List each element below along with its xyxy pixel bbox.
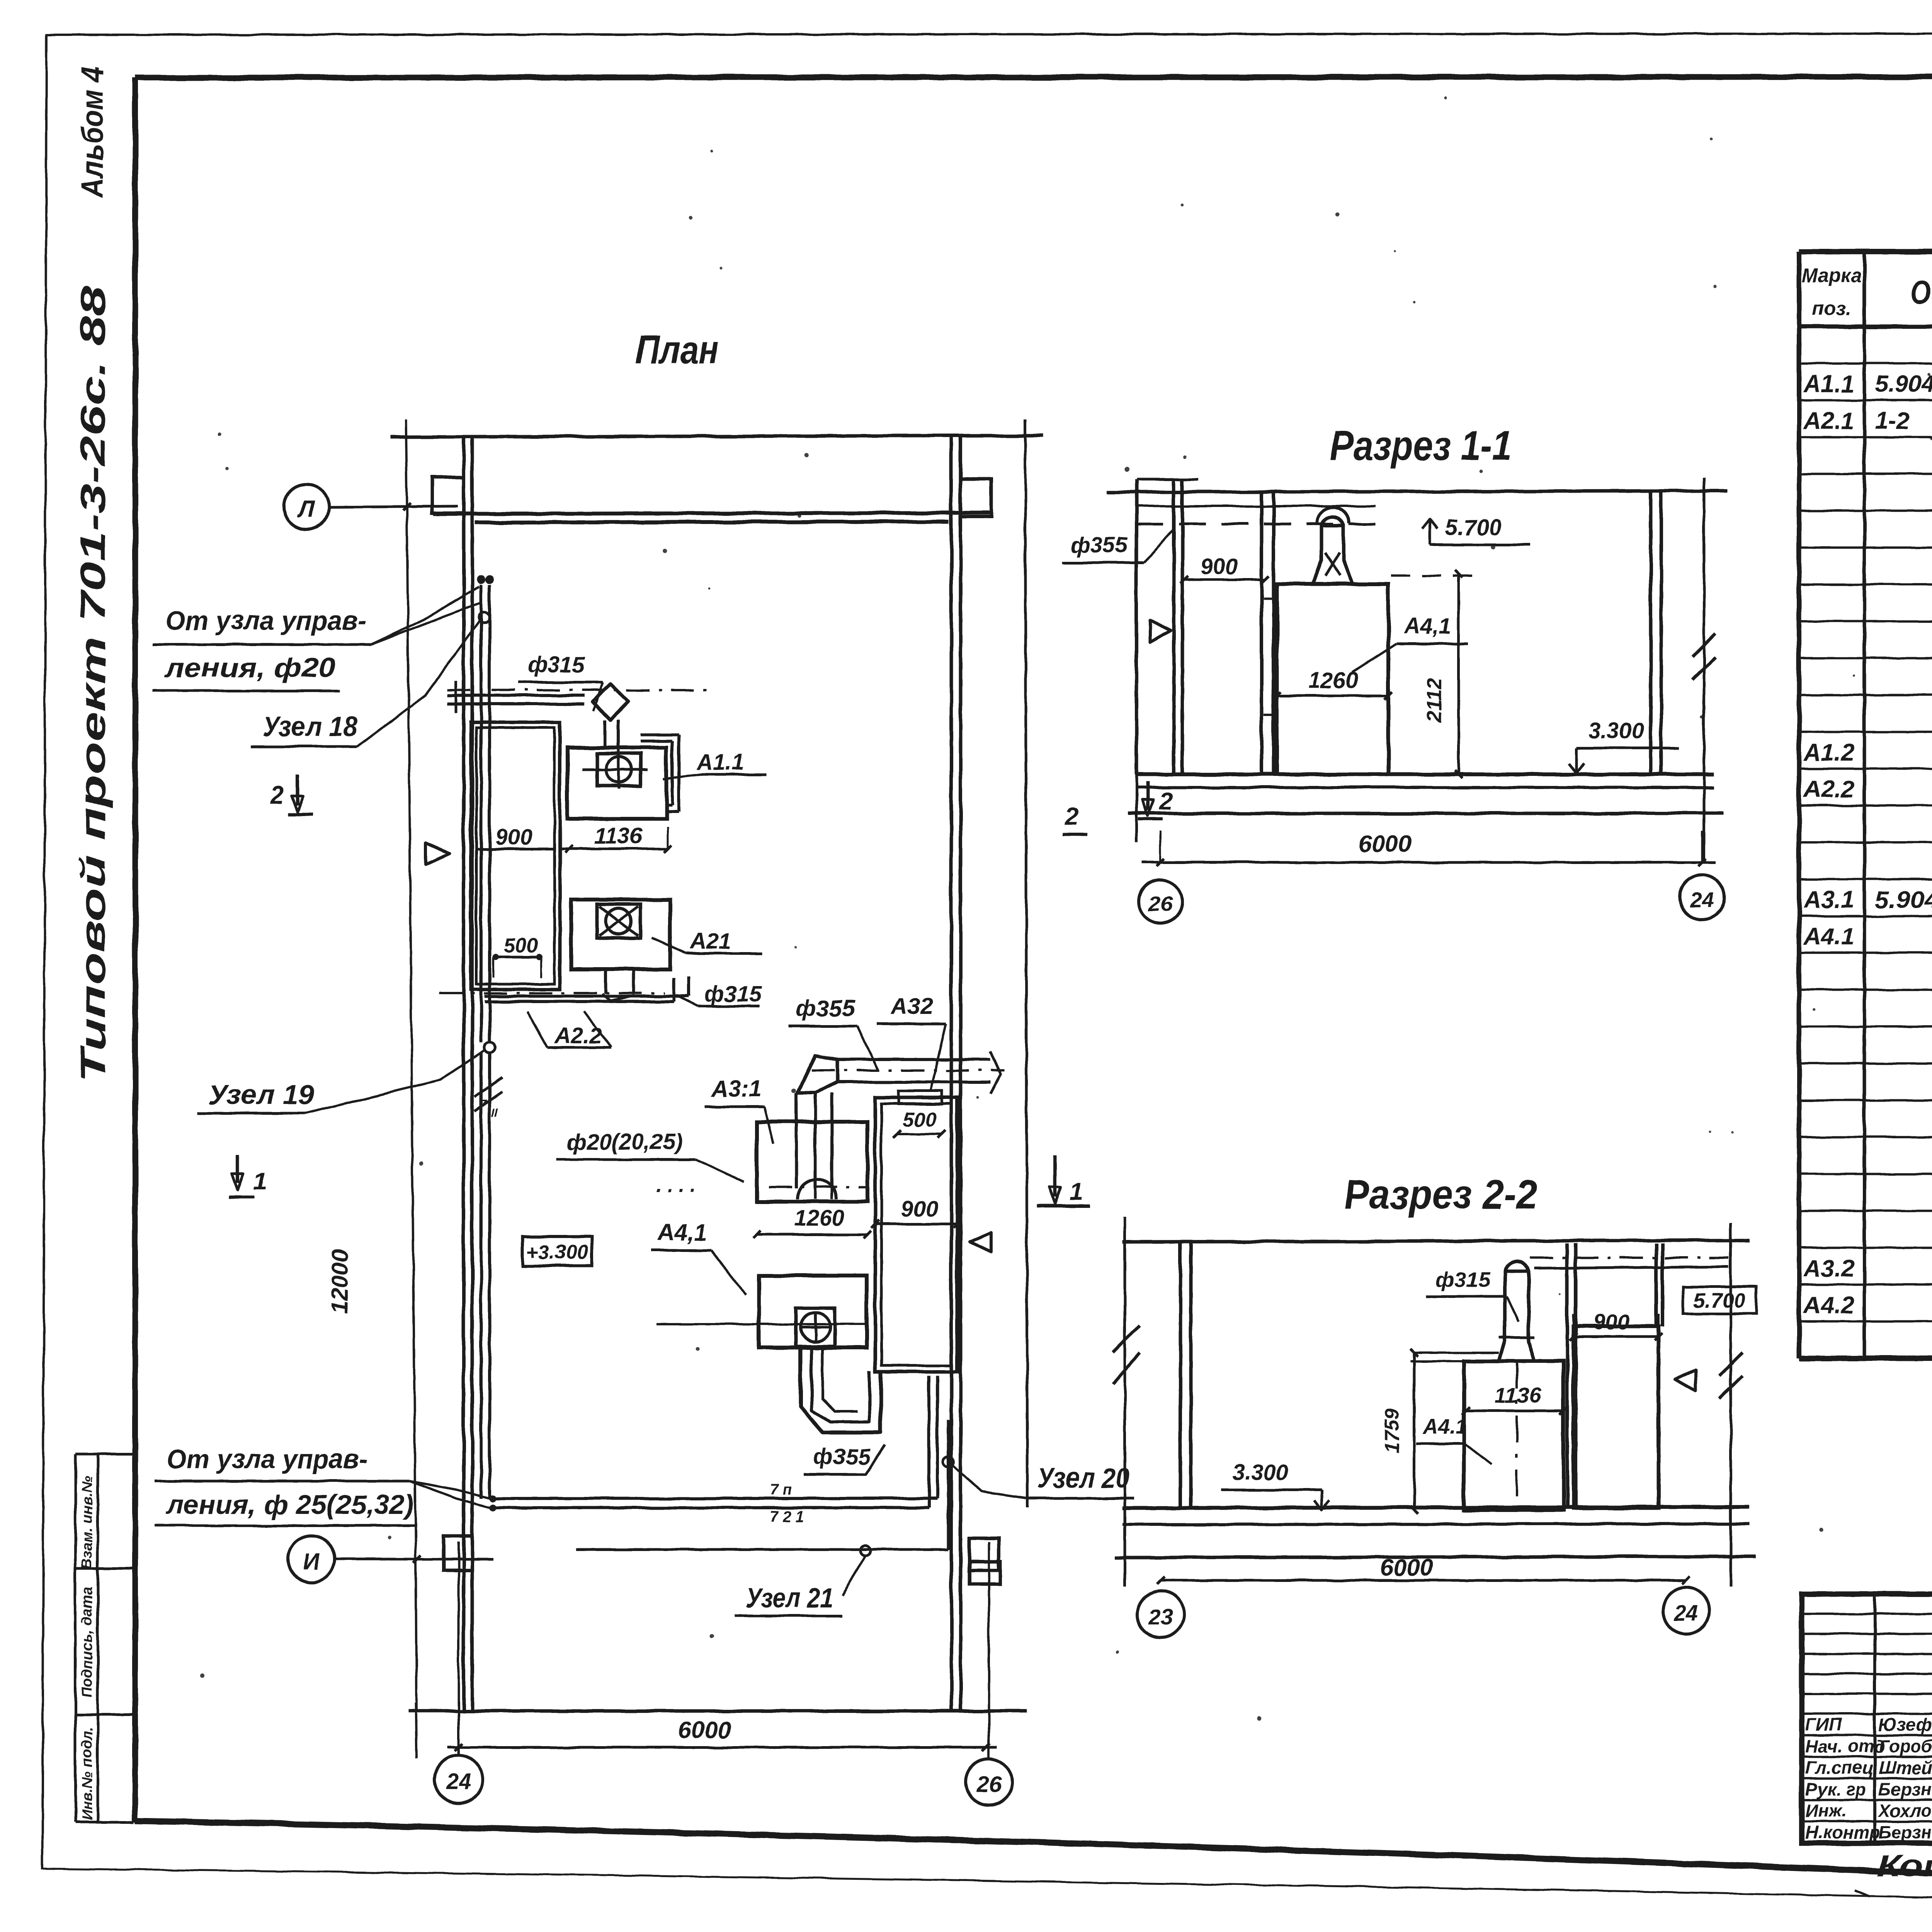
svg-text:1260: 1260 [794, 1206, 844, 1231]
svg-text:7 п: 7 п [770, 1481, 792, 1498]
svg-text:От узла управ-: От узла управ- [167, 1444, 367, 1474]
svg-text:Узел 18: Узел 18 [262, 711, 357, 742]
svg-text:II: II [492, 1107, 498, 1119]
svg-text:ф315: ф315 [704, 981, 762, 1007]
svg-text:24: 24 [1690, 888, 1714, 912]
svg-text:ф315: ф315 [1435, 1267, 1491, 1291]
svg-text:А2.1: А2.1 [1803, 408, 1854, 434]
svg-text:И: И [303, 1549, 320, 1575]
svg-text:ления, ф 25(25,32): ления, ф 25(25,32) [165, 1490, 414, 1520]
svg-text:ления, ф20: ления, ф20 [164, 653, 335, 683]
svg-text:От узла управ-: От узла управ- [165, 605, 366, 636]
svg-text:1136: 1136 [594, 823, 643, 849]
svg-text:1: 1 [253, 1167, 267, 1195]
svg-text:План: План [636, 327, 719, 372]
svg-text:2: 2 [1159, 787, 1173, 815]
svg-text:. . . .: . . . . [656, 1173, 696, 1197]
svg-text:ф355: ф355 [1070, 532, 1128, 558]
svg-text:А3.2: А3.2 [1803, 1255, 1854, 1282]
svg-text:+3.300: +3.300 [526, 1241, 588, 1264]
svg-text:1759: 1759 [1381, 1408, 1403, 1453]
svg-text:Инв.№ подл.: Инв.№ подл. [79, 1727, 95, 1820]
svg-text:Подпись, дата: Подпись, дата [79, 1587, 95, 1697]
svg-text:Гл.спец: Гл.спец [1805, 1758, 1874, 1778]
svg-text:А1.1: А1.1 [696, 750, 744, 775]
svg-text:900: 900 [901, 1196, 939, 1221]
svg-text:12000: 12000 [327, 1249, 353, 1314]
svg-text:5.904-34 6.0.1-1и 1-2: 5.904-34 6.0.1-1и 1-2 [1875, 887, 1932, 913]
svg-text:26: 26 [1148, 891, 1173, 916]
svg-text:Горобец: Горобец [1879, 1736, 1932, 1756]
svg-text:6000: 6000 [1380, 1554, 1433, 1581]
svg-text:А2.2: А2.2 [1803, 776, 1854, 803]
svg-text:Штейнберг: Штейнберг [1879, 1758, 1932, 1778]
svg-text:5.904-34 6.0.1-1и: 5.904-34 6.0.1-1и [1875, 371, 1932, 398]
svg-text:3.300: 3.300 [1232, 1460, 1288, 1485]
svg-text:ф355: ф355 [796, 995, 855, 1021]
svg-text:А4,1: А4,1 [1403, 614, 1451, 639]
svg-text:ф315: ф315 [527, 652, 585, 677]
svg-text:900: 900 [1593, 1310, 1629, 1334]
svg-text:А3.1: А3.1 [1803, 887, 1854, 913]
svg-text:А32: А32 [890, 993, 933, 1019]
svg-text:Копировала: Копировала [1877, 1849, 1932, 1883]
svg-text:900: 900 [495, 825, 533, 850]
svg-text:А1.2: А1.2 [1803, 739, 1854, 766]
svg-text:А1.1: А1.1 [1803, 371, 1854, 398]
svg-text:3.300: 3.300 [1588, 718, 1644, 743]
svg-text:ф20(20,25): ф20(20,25) [567, 1129, 683, 1155]
svg-text:А3:1: А3:1 [711, 1076, 762, 1102]
svg-text:Разрез 1-1: Разрез 1-1 [1330, 422, 1512, 469]
svg-text:ГИП: ГИП [1805, 1714, 1842, 1735]
svg-text:26: 26 [976, 1772, 1002, 1797]
svg-text:500: 500 [503, 934, 538, 957]
svg-text:Юзефович: Юзефович [1879, 1714, 1932, 1735]
svg-text:2: 2 [1064, 803, 1078, 830]
svg-text:А4,1: А4,1 [657, 1219, 707, 1245]
svg-text:24: 24 [446, 1769, 471, 1794]
svg-text:Марка: Марка [1802, 265, 1861, 286]
svg-text:поз.: поз. [1812, 298, 1851, 319]
svg-text:Альбом 4: Альбом 4 [75, 66, 109, 199]
svg-text:2: 2 [270, 781, 284, 809]
svg-text:Рук. гр: Рук. гр [1805, 1779, 1866, 1799]
svg-text:24: 24 [1674, 1601, 1698, 1625]
svg-text:7 2 1: 7 2 1 [770, 1508, 804, 1525]
svg-text:1-2: 1-2 [1875, 408, 1910, 434]
svg-text:500: 500 [903, 1109, 937, 1131]
svg-text:Узел 21: Узел 21 [746, 1583, 833, 1614]
svg-text:Берзнер: Берзнер [1879, 1779, 1932, 1799]
svg-text:5.700: 5.700 [1693, 1289, 1745, 1312]
svg-text:А21: А21 [689, 929, 731, 954]
svg-text:Нач. отд: Нач. отд [1805, 1736, 1885, 1756]
svg-text:23: 23 [1148, 1605, 1173, 1629]
svg-text:Берзнер: Берзнер [1879, 1822, 1932, 1842]
svg-text:А4.1: А4.1 [1422, 1415, 1467, 1438]
svg-text:900: 900 [1201, 554, 1238, 579]
svg-text:6000: 6000 [678, 1717, 731, 1743]
svg-text:Типовой проект 701-3-26с. 88: Типовой проект 701-3-26с. 88 [73, 286, 113, 1082]
svg-text:Узел 19: Узел 19 [208, 1080, 315, 1111]
svg-text:Разрез 2-2: Разрез 2-2 [1344, 1171, 1537, 1218]
svg-text:А4.2: А4.2 [1803, 1292, 1854, 1319]
svg-text:1260: 1260 [1308, 668, 1358, 693]
svg-text:Взам. инв.№: Взам. инв.№ [79, 1476, 95, 1569]
svg-text:ф355: ф355 [813, 1444, 871, 1469]
svg-text:Обозначение: Обозначение [1910, 274, 1932, 310]
svg-text:Н.контр: Н.контр [1805, 1822, 1880, 1842]
svg-text:1: 1 [1070, 1177, 1083, 1205]
svg-text:5.700: 5.700 [1445, 515, 1501, 540]
svg-text:6000: 6000 [1358, 831, 1412, 857]
svg-text:1136: 1136 [1495, 1383, 1541, 1407]
svg-text:Хохлова: Хохлова [1878, 1801, 1932, 1821]
svg-text:2112: 2112 [1423, 678, 1446, 723]
svg-text:Узел 20: Узел 20 [1037, 1463, 1129, 1494]
svg-text:Инж.: Инж. [1805, 1801, 1847, 1821]
svg-text:А4.1: А4.1 [1803, 923, 1854, 950]
svg-text:Л: Л [297, 496, 315, 522]
